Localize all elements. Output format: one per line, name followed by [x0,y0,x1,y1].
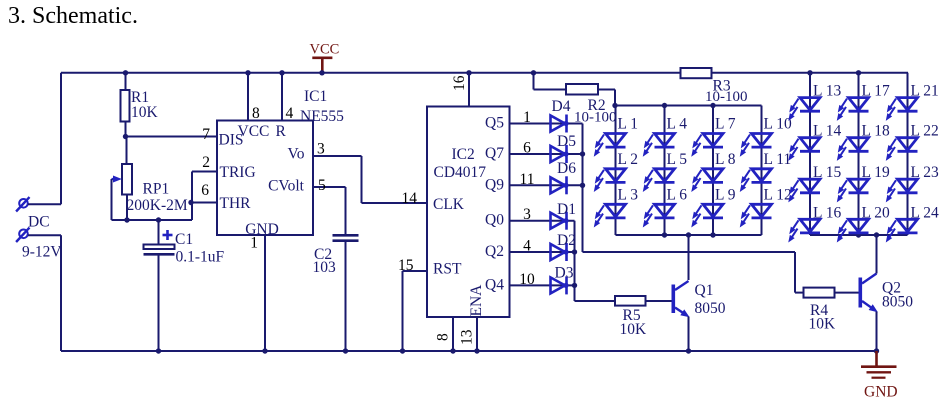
svg-text:3. Schematic.: 3. Schematic. [8,3,138,29]
svg-text:L 9: L 9 [715,186,736,203]
svg-text:D5: D5 [557,133,576,150]
svg-text:Q0: Q0 [485,212,504,229]
svg-text:DIS: DIS [219,132,244,149]
svg-text:Vo: Vo [288,146,305,163]
svg-text:3: 3 [317,141,325,158]
svg-text:L 13: L 13 [813,83,842,100]
svg-text:10-100: 10-100 [705,89,748,105]
svg-text:RST: RST [433,261,462,278]
svg-text:CVolt: CVolt [268,178,305,195]
svg-text:Q2: Q2 [485,243,504,260]
svg-text:D1: D1 [557,201,576,218]
svg-text:0.1-1uF: 0.1-1uF [176,249,225,266]
svg-text:8: 8 [435,333,452,341]
svg-text:L 18: L 18 [862,123,891,140]
svg-text:10-100: 10-100 [574,110,617,126]
svg-text:9-12V: 9-12V [22,244,62,261]
svg-text:D3: D3 [555,265,574,282]
svg-text:L 8: L 8 [715,151,736,168]
svg-text:Q1: Q1 [695,282,714,299]
svg-text:D6: D6 [557,160,576,177]
svg-text:15: 15 [398,257,414,274]
svg-text:VCC: VCC [310,42,340,58]
svg-text:Q5: Q5 [485,115,504,132]
svg-text:L 12: L 12 [764,186,792,203]
svg-text:L 23: L 23 [911,164,940,181]
svg-text:8: 8 [252,105,260,122]
svg-text:13: 13 [459,329,476,345]
svg-text:IC1: IC1 [304,88,327,105]
svg-text:Q9: Q9 [485,176,504,193]
svg-text:L 21: L 21 [911,83,939,100]
svg-text:TRIG: TRIG [220,164,256,181]
svg-text:L 1: L 1 [618,116,639,133]
svg-text:NE555: NE555 [300,108,344,125]
svg-text:10K: 10K [131,104,159,121]
svg-text:200K-2M: 200K-2M [127,197,188,214]
svg-text:L 10: L 10 [764,116,793,133]
svg-text:8050: 8050 [882,294,913,311]
svg-text:103: 103 [313,259,337,276]
svg-text:D2: D2 [557,232,576,249]
svg-text:5: 5 [318,177,326,194]
svg-text:IC2: IC2 [452,146,475,163]
svg-text:D4: D4 [552,98,571,115]
svg-text:L 3: L 3 [618,186,639,203]
svg-text:RP1: RP1 [143,181,170,198]
svg-text:6: 6 [201,182,209,199]
svg-text:2: 2 [202,154,210,171]
svg-text:L 7: L 7 [715,116,736,133]
svg-text:C1: C1 [175,231,193,248]
svg-text:L 24: L 24 [911,204,940,221]
svg-text:L 19: L 19 [862,164,891,181]
svg-text:L 4: L 4 [667,116,688,133]
svg-text:4: 4 [286,105,294,122]
svg-text:Q4: Q4 [485,276,504,293]
svg-text:1: 1 [250,235,258,252]
svg-text:L 2: L 2 [618,151,639,168]
svg-text:L 22: L 22 [911,123,939,140]
svg-text:10K: 10K [809,316,837,333]
svg-text:L 17: L 17 [862,83,891,100]
svg-text:L 20: L 20 [862,204,891,221]
svg-text:ENA: ENA [468,284,485,317]
svg-text:16: 16 [451,75,468,91]
svg-text:CD4017: CD4017 [434,164,487,181]
svg-text:14: 14 [402,190,418,207]
svg-text:L 16: L 16 [813,204,842,221]
svg-text:Q7: Q7 [485,145,504,162]
svg-text:L 5: L 5 [667,151,688,168]
svg-text:GND: GND [864,384,898,401]
svg-text:R: R [276,123,287,140]
svg-text:L 14: L 14 [813,123,842,140]
svg-text:8050: 8050 [695,300,726,317]
svg-text:7: 7 [202,126,210,143]
svg-text:10K: 10K [620,321,648,338]
svg-text:DC: DC [28,213,50,230]
svg-text:CLK: CLK [433,196,465,213]
svg-text:L 6: L 6 [667,186,688,203]
svg-text:THR: THR [220,195,252,212]
svg-text:L 15: L 15 [813,164,842,181]
svg-text:L 11: L 11 [764,151,792,168]
